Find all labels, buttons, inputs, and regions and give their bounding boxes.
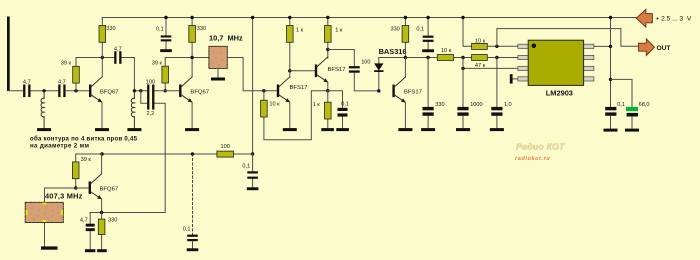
capacitor C8 0,1	[183, 227, 198, 249]
transistor Q2 BFQ67	[179, 77, 209, 102]
svg-text:10 к: 10 к	[441, 48, 452, 54]
node on rail	[288, 16, 291, 19]
svg-text:BFS17: BFS17	[404, 90, 422, 96]
node	[609, 45, 612, 48]
wire: V+ to pull-up resistor	[463, 18, 472, 47]
wire: Q2 collector node	[165, 57, 209, 59]
resistor R12 330	[390, 18, 408, 58]
node: detector	[404, 56, 407, 59]
transistor Q1 BFQ67	[89, 77, 119, 102]
crystal ZQ1 10,7 MHz	[209, 34, 243, 69]
svg-text:330: 330	[108, 217, 117, 223]
node: Q4 collector / Q5 base	[288, 69, 291, 72]
wire: Q6 collector	[404, 58, 406, 78]
svg-text:на диаметре 2 мм: на диаметре 2 мм	[30, 143, 89, 150]
ground	[97, 249, 107, 252]
wire	[31, 90, 59, 92]
svg-text:OUT: OUT	[657, 45, 671, 52]
wire: V+ to pin 8	[594, 18, 611, 108]
resistor R9 10k	[261, 91, 328, 140]
capacitor C3 4,7 coupling	[114, 47, 122, 64]
svg-text:10,7 MHz: 10,7 MHz	[209, 34, 243, 43]
wire: Q5 base	[290, 70, 315, 72]
ground	[185, 128, 199, 131]
resonator ZQ2 407,3 MHz	[25, 191, 82, 222]
wire: Q6 emitter	[404, 102, 406, 128]
svg-text:BFS17: BFS17	[290, 85, 308, 91]
svg-text:4,7: 4,7	[80, 217, 88, 223]
resistor R7 330	[98, 213, 117, 250]
ground	[625, 129, 639, 132]
capacitor C17 68,0 electrolytic	[611, 79, 650, 128]
resistor R3 39k	[152, 58, 169, 91]
resistor R11 1k	[313, 91, 332, 128]
ground	[604, 129, 618, 132]
wire: base chain Q2	[134, 90, 179, 92]
transistor Q4 BFS17	[277, 77, 308, 102]
wire: shielding dashed drop	[192, 154, 194, 235]
node on rail	[404, 16, 407, 19]
ground	[160, 49, 172, 52]
ground	[421, 128, 435, 131]
svg-text:+ 2.5 ... 3 V: + 2.5 ... 3 V	[656, 16, 692, 23]
ground: pin 4	[510, 74, 518, 83]
node: antenna tank junction	[42, 89, 45, 92]
svg-text:4,7: 4,7	[114, 47, 122, 53]
svg-text:1,0: 1,0	[504, 102, 512, 108]
node on rail	[251, 16, 254, 19]
node	[609, 78, 612, 81]
wire: resonator ground lead	[44, 223, 46, 247]
svg-text:4,7: 4,7	[23, 80, 31, 86]
node on rail	[609, 16, 612, 19]
note text	[30, 135, 138, 149]
resistor R15 47k	[472, 55, 518, 69]
wire: oscillator emitter	[90, 199, 165, 212]
transistor Q6 BFS17	[392, 77, 422, 102]
resistor R5 100	[217, 144, 234, 157]
wire: crystal case ground	[217, 68, 219, 77]
inductor L1	[41, 91, 44, 128]
svg-text:100: 100	[361, 60, 370, 66]
ground	[283, 128, 297, 131]
svg-text:BFQ67: BFQ67	[190, 89, 209, 95]
resistor R4 330	[189, 18, 206, 78]
node: Q6 base	[377, 89, 380, 92]
wire: V+ feed to oscillator	[252, 18, 254, 155]
node: detector column	[461, 56, 464, 59]
wire: oscillator collector	[101, 154, 103, 174]
svg-text:330: 330	[435, 102, 444, 108]
ground	[398, 128, 412, 131]
node: Q5 collector tap	[326, 48, 329, 51]
capacitor C16 0,1	[605, 102, 625, 129]
ground	[41, 246, 58, 249]
svg-text:0,1: 0,1	[341, 101, 349, 107]
svg-text:1 к: 1 к	[335, 27, 343, 33]
svg-text:68,0: 68,0	[639, 102, 650, 108]
wire: detector filter chain	[405, 57, 437, 59]
wire: injection line to oscillator	[164, 154, 166, 213]
ground	[187, 248, 199, 251]
ground	[95, 128, 109, 131]
svg-text:10 к: 10 к	[475, 38, 486, 44]
capacitor C5 100	[146, 80, 155, 98]
resistor R6 39k	[72, 154, 91, 188]
node	[164, 89, 167, 92]
capacitor C9 4,7	[80, 213, 95, 250]
node: Q5 emitter	[326, 89, 329, 92]
diode D1 BAS316	[374, 47, 406, 91]
ground	[336, 128, 349, 131]
svg-text:330: 330	[390, 26, 399, 32]
wire	[66, 90, 89, 92]
svg-text:10 к: 10 к	[269, 101, 280, 107]
capacitor C10 0,1	[328, 91, 349, 128]
capacitor C12 0,1 decoupling	[416, 18, 433, 49]
svg-text:1 к: 1 к	[296, 27, 304, 33]
capacitor C1 4,7	[23, 80, 31, 98]
node	[133, 89, 136, 92]
node	[251, 152, 254, 155]
wire: Q4 emitter	[289, 102, 291, 128]
svg-text:0,1: 0,1	[242, 164, 250, 170]
node on rail	[326, 16, 329, 19]
ground	[247, 187, 259, 190]
capacitor C13 330	[423, 58, 445, 129]
capacitor C14 1000	[457, 68, 482, 128]
inductor L2	[131, 91, 134, 128]
ground	[422, 49, 434, 52]
node: reference	[495, 56, 498, 59]
wire: oscillator collector line	[76, 153, 253, 155]
node on rail	[164, 16, 167, 19]
svg-text:BFQ67: BFQ67	[100, 89, 119, 95]
svg-text:Радио КОТ: Радио КОТ	[516, 141, 565, 151]
ground	[490, 128, 504, 131]
svg-text:BAS316: BAS316	[379, 47, 407, 56]
ground	[321, 128, 334, 131]
resistor R14 10k pull-up	[472, 38, 518, 49]
ground	[37, 128, 51, 131]
svg-text:radiokot.ru: radiokot.ru	[515, 156, 550, 162]
node	[100, 152, 103, 155]
svg-text:BFQ67: BFQ67	[100, 186, 119, 192]
node on rail	[426, 16, 429, 19]
node on rail	[190, 16, 193, 19]
wire: diode anode to detector node	[379, 57, 406, 59]
capacitor C7 0,1	[242, 154, 257, 187]
svg-text:BFS17: BFS17	[328, 67, 346, 73]
node on rail	[461, 16, 464, 19]
transistor Q5 BFS17	[315, 57, 346, 82]
svg-text:2,2: 2,2	[147, 111, 155, 117]
svg-text:1 к: 1 к	[313, 102, 321, 108]
svg-text:0,1: 0,1	[156, 26, 164, 32]
capacitor C15 1,0	[491, 58, 511, 129]
ground	[127, 128, 141, 131]
resistor R13 10k	[437, 48, 471, 61]
capacitor C4 0,1 decoupling	[156, 18, 171, 49]
op-amp U1 LM2903	[518, 40, 594, 97]
svg-text:4,7: 4,7	[58, 80, 66, 86]
resistor R2 330	[99, 18, 116, 77]
svg-text:407,3 MHz: 407,3 MHz	[45, 191, 83, 200]
svg-text:39 к: 39 к	[152, 61, 163, 67]
svg-text:0,1: 0,1	[617, 102, 625, 108]
svg-text:330: 330	[197, 26, 206, 32]
svg-text:100: 100	[221, 144, 230, 150]
node	[139, 89, 142, 92]
wire	[8, 90, 23, 92]
wire: crystal to Q3 base	[227, 58, 276, 91]
node: Q1 base	[74, 89, 77, 92]
svg-text:100: 100	[146, 80, 155, 86]
node	[101, 56, 104, 59]
node	[74, 186, 77, 189]
node	[100, 211, 103, 214]
resistor R10 1k	[325, 18, 343, 59]
svg-text:LM2903: LM2903	[546, 89, 573, 98]
svg-text:оба контура по 4 витка пров 0,: оба контура по 4 витка пров 0,45	[30, 135, 138, 142]
svg-text:39 к: 39 к	[81, 157, 92, 163]
power rail +V	[102, 17, 636, 19]
svg-text:0,1: 0,1	[183, 227, 191, 233]
resistor R1 39k	[61, 58, 80, 91]
wire: Q1 collector node	[76, 58, 134, 91]
node	[191, 152, 194, 155]
wire: Q2 emitter	[191, 102, 193, 128]
wire: detector to IN+	[463, 58, 518, 69]
watermark radiokot	[515, 141, 565, 161]
node: comparator output	[495, 45, 498, 48]
capacitor C6 2,2	[141, 91, 165, 154]
svg-text:330: 330	[106, 26, 115, 32]
svg-text:39 к: 39 к	[61, 61, 72, 67]
node	[461, 67, 464, 70]
svg-text:0,1: 0,1	[416, 27, 424, 33]
ground	[85, 249, 95, 252]
wire: Q1 emitter	[101, 102, 103, 128]
ground	[211, 78, 225, 81]
capacitor C2 4,7	[58, 80, 66, 98]
wire: output loop to OUT	[497, 29, 639, 47]
node	[190, 56, 193, 59]
node: Q4 base	[262, 89, 265, 92]
node	[426, 56, 429, 59]
wire: oscillator base	[45, 188, 89, 202]
output arrow OUT	[639, 39, 671, 56]
wire: Q5 emitter	[327, 82, 329, 90]
ground	[456, 128, 470, 131]
antenna W1	[7, 17, 10, 92]
transistor Q3 BFQ67 oscillator	[89, 174, 119, 199]
capacitor C11 100	[328, 50, 379, 91]
resistor R8 1k	[287, 18, 304, 78]
svg-text:1000: 1000	[470, 102, 482, 108]
power arrow +2.5...3V	[636, 9, 692, 27]
